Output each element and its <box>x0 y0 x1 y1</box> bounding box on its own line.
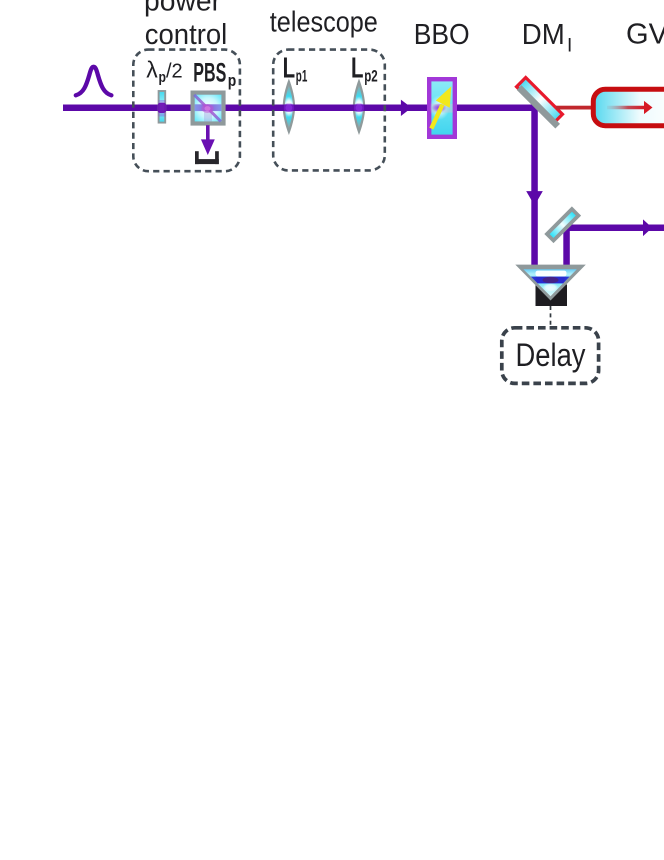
reflected arrow from PBS to beam dump <box>201 125 215 155</box>
dashed box: Delay <box>502 328 599 384</box>
svg-text:Delay: Delay <box>516 337 586 373</box>
svg-text:power: power <box>144 0 221 17</box>
dotted connector prism to Delay box <box>550 306 552 327</box>
svg-text:p: p <box>159 69 167 86</box>
dashed box: telescope <box>273 50 385 171</box>
svg-text:L: L <box>351 52 364 84</box>
GV component (grating + mirror assembly, clipped at right edge) <box>593 89 664 125</box>
svg-text:telescope: telescope <box>270 6 378 38</box>
lens glow Lp2 over beam <box>354 104 364 112</box>
retroreflector prism <box>515 265 586 301</box>
svg-text:/2: /2 <box>166 61 183 83</box>
beam dump (black U) <box>195 151 219 164</box>
svg-text:p: p <box>228 71 237 90</box>
svg-text:L: L <box>283 52 296 84</box>
red beam from DM to GV <box>556 106 591 110</box>
retroreflector prism mount (black block) <box>536 285 568 307</box>
wire main pump beam horizontal <box>63 105 538 112</box>
lens Lp1 <box>283 79 295 136</box>
wire signal beam horizontal to right edge <box>563 225 664 232</box>
svg-text:GV: GV <box>626 19 664 51</box>
svg-text:I: I <box>567 36 572 57</box>
beam arrowhead before BBO <box>401 100 412 116</box>
lens glow Lp1 over beam <box>284 104 294 112</box>
beam arrowhead pointing down after DM <box>526 191 543 205</box>
svg-text:PBS: PBS <box>193 57 226 87</box>
svg-text:p2: p2 <box>364 68 378 86</box>
BBO crystal <box>429 79 455 137</box>
input pulse symbol <box>76 67 112 96</box>
lens Lp2 <box>353 79 365 136</box>
svg-text:p1: p1 <box>296 68 308 86</box>
wire signal beam vertical from prism up to pickoff mirror <box>563 225 570 267</box>
pick-off mirror (small, 45deg) <box>544 206 581 243</box>
svg-text:λ: λ <box>146 57 158 83</box>
svg-text:DM: DM <box>522 19 565 51</box>
svg-text:control: control <box>145 19 228 51</box>
waveplate lambda/2 <box>158 91 166 123</box>
beam arrowhead on output beam right <box>643 219 652 236</box>
dichroic mirror DM_I <box>515 78 566 129</box>
svg-text:BBO: BBO <box>414 19 470 51</box>
PBS cube <box>193 93 224 124</box>
wire pump beam vertical from DM down to prism <box>531 105 538 267</box>
dashed box: power control <box>133 50 240 172</box>
